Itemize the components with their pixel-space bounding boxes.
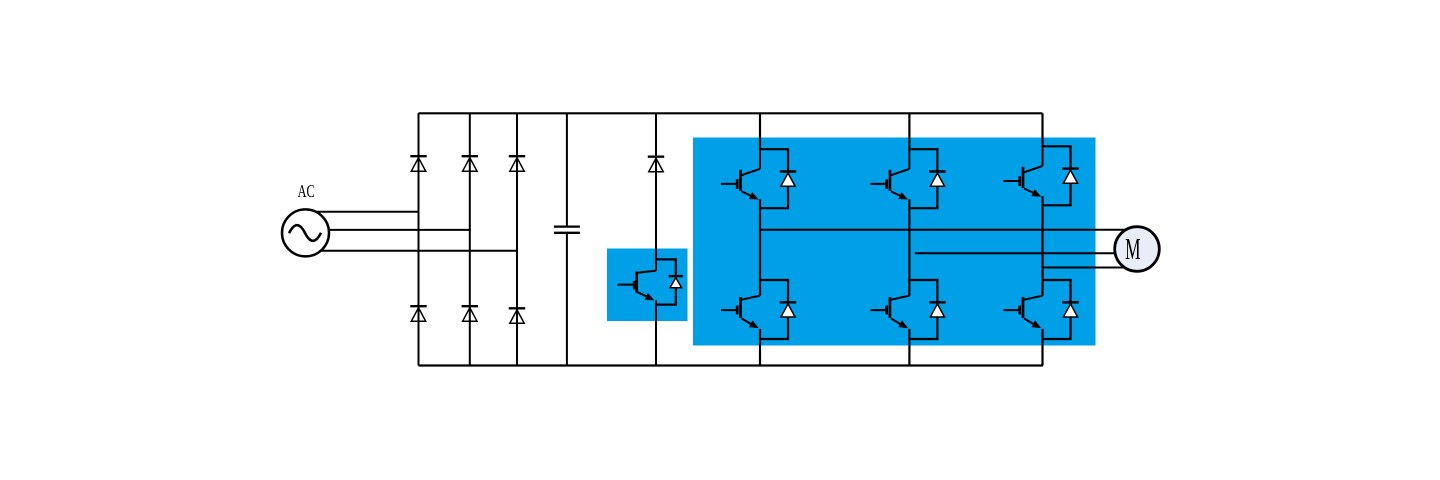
wire: negative DC bus (bottom) bbox=[419, 364, 1044, 366]
IGBT Q2 (inverter high side) bbox=[908, 149, 910, 169]
AC source symbol bbox=[282, 209, 329, 256]
wire: AC phase R to rectifier leg 1 bbox=[306, 211, 420, 213]
motor M (3-phase) bbox=[1115, 227, 1160, 272]
svg-text:M: M bbox=[1125, 232, 1140, 266]
diode D11 (antiparallel, high side leg 3) bbox=[1043, 146, 1071, 205]
diode D9 (antiparallel, high side leg 1) bbox=[760, 149, 788, 208]
IGBT Q6 (inverter low side) bbox=[1042, 280, 1044, 296]
highlight box: inverter power module bbox=[693, 138, 1096, 346]
wire: inverter leg 2 mid segment bbox=[908, 199, 910, 295]
wire: inverter leg 3 upper segment bbox=[1041, 113, 1043, 146]
wire: phase W output to motor bbox=[1043, 267, 1138, 269]
diode D1 (rectifier top, leg 1) bbox=[410, 155, 426, 157]
wire: inverter leg 1 upper segment bbox=[759, 113, 761, 149]
diode D10 (antiparallel, high side leg 2) bbox=[909, 149, 937, 208]
wire: brake leg upper segment bbox=[655, 113, 657, 270]
diode D2 (rectifier top, leg 2) bbox=[462, 155, 478, 157]
IGBT Q5 (inverter low side) bbox=[908, 280, 910, 296]
highlight box: brake chopper unit bbox=[607, 249, 688, 322]
wire: brake leg lower segment bbox=[655, 300, 657, 365]
wire: capacitor bottom lead bbox=[566, 233, 568, 366]
capacitor C1 (DC bus) bbox=[554, 225, 580, 227]
wire: inverter leg 2 upper segment bbox=[908, 113, 910, 149]
IGBT Q3 (inverter high side) bbox=[1042, 146, 1044, 166]
wire: rectifier leg 1 bbox=[418, 113, 420, 365]
diode D8 (brake chopper antiparallel) bbox=[656, 259, 676, 304]
diode D13 (antiparallel, low side leg 2) bbox=[909, 280, 937, 339]
diode D7 (brake resistor feed) bbox=[648, 155, 664, 157]
wire: phase V output to motor bbox=[915, 252, 1137, 254]
wire: positive DC bus (top) bbox=[419, 112, 1043, 114]
diode D6 (rectifier bottom, leg 3) bbox=[509, 307, 525, 309]
IGBT Q4 (inverter low side) bbox=[759, 280, 761, 296]
wire: inverter leg 1 mid segment bbox=[759, 199, 761, 295]
diode D3 (rectifier top, leg 3) bbox=[509, 155, 525, 157]
wire: AC phase T to rectifier leg 3 bbox=[306, 250, 518, 252]
label: AC bbox=[298, 181, 315, 201]
svg-text:AC: AC bbox=[298, 181, 315, 201]
wire: inverter leg 2 lower segment bbox=[908, 329, 910, 366]
diode D4 (rectifier bottom, leg 1) bbox=[410, 305, 426, 307]
wire: capacitor top lead bbox=[566, 113, 568, 226]
diode D14 (antiparallel, low side leg 3) bbox=[1043, 280, 1071, 339]
IGBT Q7 (brake chopper) bbox=[655, 259, 657, 270]
wire: inverter leg 3 lower segment bbox=[1041, 329, 1043, 366]
wire: rectifier leg 3 bbox=[516, 113, 518, 365]
diode D12 (antiparallel, low side leg 1) bbox=[760, 280, 788, 339]
wire: rectifier leg 2 bbox=[469, 113, 471, 365]
diode D5 (rectifier bottom, leg 2) bbox=[462, 305, 478, 307]
wire: inverter leg 1 lower segment bbox=[759, 329, 761, 366]
wire: inverter leg 3 mid segment bbox=[1041, 196, 1043, 295]
IGBT Q1 (inverter high side) bbox=[759, 149, 761, 169]
wire: AC phase S to rectifier leg 2 bbox=[306, 229, 471, 231]
wire: phase U output to motor bbox=[760, 229, 1137, 231]
